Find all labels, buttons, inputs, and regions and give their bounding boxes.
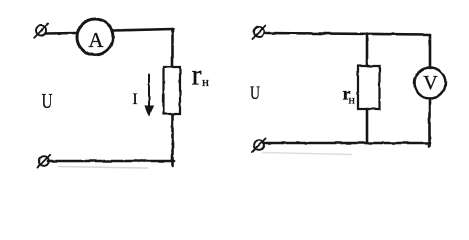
svg-text:U: U — [250, 83, 260, 104]
svg-text:н: н — [202, 74, 209, 89]
svg-text:I: I — [132, 91, 137, 108]
svg-text:V: V — [423, 72, 438, 94]
svg-text:U: U — [42, 89, 53, 113]
svg-text:н: н — [349, 93, 356, 107]
svg-text:A: A — [88, 28, 104, 52]
svg-text:r: r — [192, 59, 202, 92]
